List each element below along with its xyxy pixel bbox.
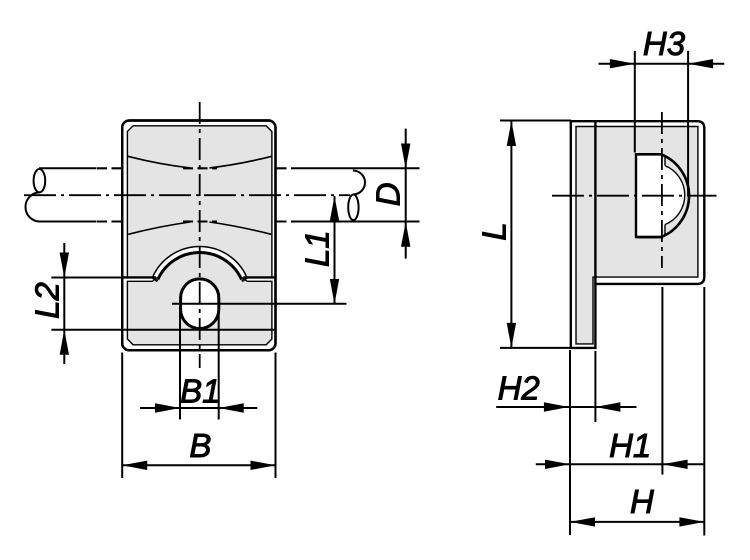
dimension H — [570, 287, 704, 536]
saddle arch chamfer band (white) — [153, 247, 247, 278]
saddle arch left end cap — [153, 277, 158, 281]
svg-text:L2: L2 — [28, 282, 65, 319]
saddle arch right end cap — [242, 277, 247, 281]
svg-text:H1: H1 — [609, 427, 651, 464]
tube bottom edge left — [39, 221, 97, 223]
tube break arc left — [25, 192, 39, 221]
front view vertical center line — [199, 102, 201, 368]
parting seam thick right segment — [243, 276, 275, 278]
saddle hole chamfer crescent — [661, 154, 689, 237]
dimension D — [401, 129, 410, 259]
tube top edge right — [292, 167, 420, 169]
side view step edge — [594, 121, 596, 284]
bore flare curve lower-left — [128, 222, 190, 234]
hidden tube edge dashes bottom — [97, 220, 292, 222]
svg-text:H2: H2 — [498, 370, 540, 407]
svg-text:L1: L1 — [299, 230, 336, 267]
tube bottom edge right — [292, 221, 420, 223]
dimension B1 — [140, 306, 257, 420]
upper block inner chamfer contour — [127, 126, 272, 278]
saddle hole chamfer chords — [664, 157, 666, 236]
svg-text:H: H — [630, 483, 654, 520]
tube break ellipse right — [348, 195, 358, 221]
parting seam thick left segment — [122, 276, 156, 278]
D-shaped saddle hole — [636, 154, 689, 237]
svg-text:D: D — [370, 182, 407, 206]
hidden tube edge dashes top — [97, 167, 292, 169]
svg-text:B: B — [189, 427, 211, 464]
tube break ellipse left — [34, 169, 46, 192]
slot hole (oval) — [181, 279, 219, 329]
dimension L — [500, 121, 571, 348]
saddle arch outer thin arc — [153, 247, 247, 278]
saddle hole vertical center line — [661, 112, 663, 268]
svg-text:H3: H3 — [643, 25, 686, 62]
slot horizontal center line — [172, 303, 347, 305]
tube top edge left — [39, 167, 97, 169]
bore flare curve lower-right — [209, 222, 271, 234]
dimension B — [122, 353, 275, 479]
saddle hole outer arc re-stroke — [636, 154, 689, 237]
bore flare curve upper-left — [128, 156, 190, 168]
side view outer contour — [571, 121, 705, 348]
dimension L2 — [51, 243, 275, 364]
bore flare curve upper-right — [209, 156, 271, 168]
tube axis center line — [24, 194, 350, 196]
clamp body outer contour (front view) — [122, 121, 275, 351]
side view inner chamfer contour — [576, 127, 698, 344]
saddle hole inner arc — [665, 166, 685, 225]
part outline re-stroke (front view) — [122, 121, 275, 351]
tube break arc right — [353, 171, 365, 195]
lower block inner chamfer contour — [127, 277, 272, 345]
dimension H2 — [496, 350, 636, 535]
dimension H3 — [599, 51, 725, 196]
dimension L1 — [330, 196, 339, 304]
saddle arch inner bore arc — [158, 252, 242, 279]
svg-text:L: L — [475, 222, 512, 240]
side view horizontal center line — [552, 195, 717, 197]
dimension H1 — [536, 287, 705, 475]
svg-text:B1: B1 — [180, 372, 220, 409]
